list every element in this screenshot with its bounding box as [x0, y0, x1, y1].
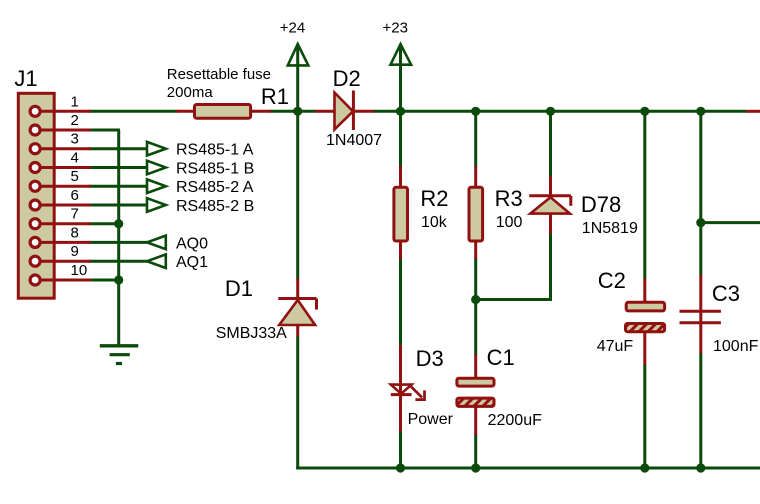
- svg-text:200ma: 200ma: [167, 84, 214, 101]
- input port AQ0: [147, 236, 166, 250]
- wire: pin8 of J1 to AQ0 port: [89, 241, 147, 244]
- wire: horizontal from C1 node to D78 branch: [476, 298, 552, 301]
- svg-text:3: 3: [71, 131, 79, 148]
- junction: C3 net to right edge: [696, 218, 705, 227]
- junction: C3 branch on rail: [696, 107, 705, 116]
- wire: pin1 of J1 to fuse R1 (net +24 rail): [89, 110, 177, 113]
- svg-text:10k: 10k: [421, 214, 448, 231]
- wire: diode D78 down to corner: [549, 233, 552, 301]
- wire: capacitor C1 down to bottom rail: [474, 434, 477, 468]
- input port AQ1: [147, 254, 166, 268]
- wire: bottom ground rail: [296, 467, 760, 470]
- wire: pin10 of J1 to ground column: [89, 279, 120, 282]
- svg-text:D78: D78: [581, 192, 621, 217]
- wire: resistor R3 down to node and capacitor C1: [474, 258, 477, 355]
- svg-text:8: 8: [71, 224, 79, 241]
- output port RS485-2 B: [147, 198, 166, 212]
- ground symbol: [100, 346, 139, 364]
- TVS diode D1: [278, 278, 316, 336]
- svg-text:1N4007: 1N4007: [326, 132, 382, 149]
- wire: capacitor C3 down to bottom rail: [699, 353, 702, 468]
- diode D2: [315, 91, 374, 131]
- svg-text:C2: C2: [598, 268, 626, 293]
- svg-text:RS485-2 A: RS485-2 A: [176, 179, 254, 196]
- schottky diode D78: [529, 176, 571, 233]
- wire: D1 down to bottom ground rail: [296, 336, 299, 470]
- svg-text:Power: Power: [408, 411, 454, 428]
- svg-text:100nF: 100nF: [713, 338, 759, 355]
- svg-text:D1: D1: [225, 276, 253, 301]
- svg-text:J1: J1: [14, 66, 37, 91]
- svg-text:Resettable fuse: Resettable fuse: [167, 66, 271, 83]
- wire: LED D3 down to bottom rail: [399, 431, 402, 468]
- junction: C2 on bottom rail: [640, 463, 649, 472]
- junction: D3 on bottom rail: [396, 463, 405, 472]
- resistor R3: [469, 166, 483, 259]
- junction: pin7 on ground column: [114, 219, 123, 228]
- wire: capacitor C2 down to bottom rail: [643, 364, 646, 468]
- wire: branch from C3 net to right edge: [701, 221, 760, 224]
- svg-text:1N5819: 1N5819: [582, 220, 638, 237]
- fuse R1: [176, 105, 271, 119]
- svg-text:C1: C1: [487, 345, 515, 370]
- svg-text:D3: D3: [416, 346, 444, 371]
- electrolytic capacitor C1: [457, 354, 494, 435]
- junction: R3 branch on rail: [471, 107, 480, 116]
- connector J1 pin circles: [30, 106, 40, 285]
- connector J1 pin leads: [35, 111, 91, 280]
- connector J1 body: [18, 93, 54, 298]
- junction: R3 / C1 / D78 node: [471, 295, 480, 304]
- wire: fuse R1 to node +24: [270, 110, 316, 113]
- svg-text:4: 4: [71, 150, 79, 167]
- junction: C3 on bottom rail: [696, 463, 705, 472]
- wire: rail down to resistor R2: [399, 111, 402, 167]
- wire: pin6 of J1 to RS485-2 B port: [89, 204, 147, 207]
- power symbol +24: [288, 44, 309, 111]
- junction: C1 on bottom rail: [471, 463, 480, 472]
- svg-text:47uF: 47uF: [597, 338, 634, 355]
- svg-text:2: 2: [71, 112, 79, 129]
- power symbol +23: [391, 44, 412, 111]
- resistor R2: [394, 166, 408, 259]
- wire: pin9 of J1 to AQ1 port: [89, 260, 147, 263]
- svg-text:C3: C3: [712, 281, 740, 306]
- svg-text:1: 1: [71, 93, 79, 110]
- junction: C2 branch on rail: [640, 107, 649, 116]
- svg-text:6: 6: [71, 187, 79, 204]
- svg-text:AQ0: AQ0: [176, 235, 208, 252]
- wire: off-page stub at right end of +23 rail: [746, 110, 760, 113]
- output port RS485-1 A: [147, 142, 166, 156]
- svg-text:SMBJ33A: SMBJ33A: [216, 325, 287, 342]
- wire: rail down to diode D78: [549, 111, 552, 177]
- wire: pin7 of J1 to ground column: [89, 222, 120, 225]
- ceramic capacitor C3: [680, 275, 721, 354]
- svg-text:9: 9: [71, 243, 79, 260]
- wire: pin4 of J1 to RS485-1 B port: [89, 166, 147, 169]
- wire: rail down to capacitor C2: [643, 111, 646, 279]
- svg-text:+23: +23: [383, 20, 408, 37]
- output port RS485-1 B: [147, 161, 166, 175]
- svg-text:AQ1: AQ1: [176, 254, 208, 271]
- svg-text:R3: R3: [495, 186, 523, 211]
- LED D3: [391, 345, 425, 432]
- wire: rail down to resistor R3: [474, 111, 477, 167]
- svg-text:D2: D2: [333, 66, 361, 91]
- output port RS485-2 A: [147, 179, 166, 193]
- svg-text:100: 100: [496, 214, 523, 231]
- junction: +24 node on rail: [293, 107, 302, 116]
- wire: diode D2 to +23 rail running right: [373, 110, 746, 113]
- svg-text:7: 7: [71, 206, 79, 223]
- svg-text:2200uF: 2200uF: [488, 412, 542, 429]
- svg-text:RS485-1 A: RS485-1 A: [176, 142, 254, 159]
- junction: D78 branch on rail: [546, 107, 555, 116]
- svg-text:+24: +24: [280, 20, 305, 37]
- svg-text:R2: R2: [420, 186, 448, 211]
- wire: pin2 of J1 to ground column: [89, 129, 120, 132]
- junction: +23 node on rail: [396, 107, 405, 116]
- svg-text:RS485-1 B: RS485-1 B: [176, 161, 254, 178]
- junction: pin10 on ground column: [114, 275, 123, 284]
- svg-text:R1: R1: [261, 84, 289, 109]
- svg-text:RS485-2 B: RS485-2 B: [176, 198, 254, 215]
- wire: resistor R2 down to LED D3: [399, 258, 402, 346]
- svg-text:10: 10: [71, 262, 88, 279]
- svg-text:5: 5: [71, 168, 79, 185]
- wire: ground column down to ground symbol: [117, 130, 120, 345]
- wire: +24 node down to D1: [296, 111, 299, 279]
- wire: pin3 of J1 to RS485-1 A port: [89, 147, 147, 150]
- wire: rail down to capacitor C3: [699, 111, 702, 275]
- wire: pin5 of J1 to RS485-2 A port: [89, 185, 147, 188]
- electrolytic capacitor C2: [626, 278, 665, 365]
